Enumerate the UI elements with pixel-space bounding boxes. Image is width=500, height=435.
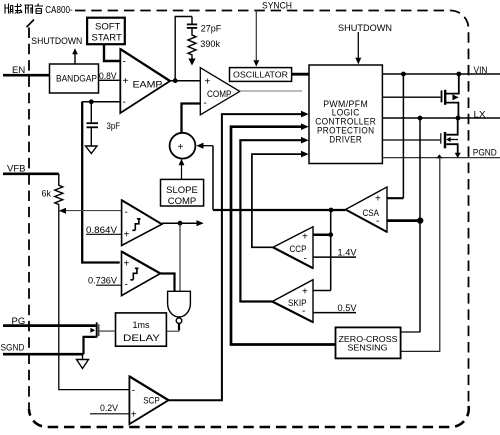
svg-text:+: + — [302, 232, 308, 243]
wire VIN rail — [382, 73, 500, 75]
capacitor 3pF — [87, 122, 99, 124]
wire bandgap shutdown arrow — [74, 52, 76, 64]
wire EN to bandgap — [3, 74, 50, 77]
node EAMP output — [173, 78, 178, 83]
soft start block — [87, 18, 125, 45]
wire CCP + — [313, 233, 331, 236]
svg-text:+: + — [178, 142, 184, 153]
svg-text:DELAY: DELAY — [123, 333, 161, 344]
wire CSA - from LX — [387, 219, 420, 222]
svg-text:CSA: CSA — [363, 208, 380, 218]
comparator CCP — [273, 227, 313, 268]
svg-text:-: - — [125, 280, 128, 291]
wire PGND rail — [382, 157, 500, 159]
svg-text:-: - — [125, 207, 128, 218]
transistor Q1 high-side MOSFET — [382, 96, 440, 98]
wire SKIP + — [313, 290, 331, 292]
wire CCP output to PWM — [252, 154, 302, 247]
ground (3pF) — [86, 146, 98, 154]
svg-text:COMP: COMP — [207, 89, 232, 100]
svg-text:0.736V: 0.736V — [88, 276, 117, 286]
svg-text:0.5V: 0.5V — [338, 303, 358, 314]
amplifier CSA — [346, 187, 388, 232]
wire COMP - input from summing node — [182, 104, 201, 133]
wire SYNCH to oscillator — [255, 10, 257, 61]
svg-text:LX: LX — [474, 110, 487, 121]
wire CSA output bus — [213, 209, 346, 211]
node PGND zero-cross arrow — [436, 154, 442, 158]
comparator SKIP — [272, 280, 313, 323]
svg-text:-: - — [132, 386, 135, 397]
comparator COMP — [200, 68, 240, 115]
svg-text:27pF: 27pF — [201, 24, 222, 34]
svg-text:+: + — [124, 230, 130, 241]
wire LX rail — [382, 117, 500, 119]
svg-text:SHUTDOWN: SHUTDOWN — [338, 23, 392, 34]
slope comp block — [161, 179, 204, 206]
wire thick triangle edges overlay — [120, 49, 387, 400]
wire zero-cross output to PWM — [231, 127, 336, 345]
wire EAMP- down to 0.736 comparator + — [82, 102, 120, 263]
arrow to output rail — [188, 59, 195, 66]
zero-cross sensing block — [336, 327, 401, 358]
svg-text:0.8V: 0.8V — [99, 71, 117, 81]
wire comp1 to NAND — [179, 223, 181, 291]
svg-text:+: + — [124, 259, 130, 270]
wire comp1 output — [162, 222, 198, 224]
svg-text:SGND: SGND — [1, 343, 25, 354]
svg-text:SOFT: SOFT — [95, 22, 121, 33]
svg-text:SYNCH: SYNCH — [262, 1, 292, 11]
hysteresis glyph — [130, 268, 138, 280]
transistor Q3 PG open drain — [96, 322, 98, 337]
hysteresis glyph — [132, 219, 140, 231]
wire oscillator to PWM block — [292, 73, 309, 76]
svg-text:CCP: CCP — [290, 244, 307, 254]
svg-text:-: - — [123, 97, 126, 108]
wire SKIP - ref 0.5V — [313, 312, 356, 314]
node VIN junctions — [401, 72, 406, 77]
svg-text:SLOPE: SLOPE — [166, 185, 198, 196]
wire SCP output to PWM — [169, 114, 302, 400]
watermark text 版权所有CA800- — [0, 0, 75, 17]
svg-text:1ms: 1ms — [132, 320, 150, 330]
resistor 390k — [188, 28, 196, 59]
svg-text:0.864V: 0.864V — [86, 225, 117, 235]
transistor Q2 low-side MOSFET — [382, 139, 440, 141]
wire CSA + from VIN — [387, 197, 403, 199]
comparator SCP — [129, 376, 168, 424]
wire delay to PG transistor gate — [99, 330, 115, 332]
bandgap block — [50, 64, 99, 93]
svg-text:BANDGAP: BANDGAP — [56, 74, 97, 84]
comparator PG lower (0.736V) — [122, 252, 161, 296]
wire EAMP inverting input — [82, 101, 120, 103]
wire slope comp to summing node — [181, 164, 183, 180]
gate NAND (pointing down) — [168, 291, 191, 317]
wire zero-cross from LX — [401, 331, 421, 333]
svg-text:PGND: PGND — [473, 147, 497, 157]
resistor 6k — [55, 174, 63, 205]
wire CCP - ref 1.4V — [313, 256, 356, 258]
svg-text:3pF: 3pF — [107, 121, 121, 132]
svg-text:VIN: VIN — [474, 65, 488, 76]
svg-text:COMP: COMP — [168, 196, 197, 207]
op-amp EAMP — [120, 49, 170, 113]
oscillator block — [230, 68, 292, 82]
svg-text:SKIP: SKIP — [288, 298, 307, 308]
wire CSA out into summing node — [203, 145, 214, 147]
svg-text:DRIVER: DRIVER — [329, 134, 362, 144]
wire zero-cross sense gray line — [401, 158, 440, 351]
wire SKIP output to PWM — [240, 140, 301, 301]
wire shutdown arrow into PWM block — [357, 32, 359, 59]
wire compensation feedback up — [175, 17, 192, 81]
PWM/PFM logic block — [309, 65, 382, 164]
wire COMP output (to PWM) — [240, 90, 302, 92]
wire NAND output to delay — [178, 324, 180, 331]
svg-text:OSCILLATOR: OSCILLATOR — [233, 70, 288, 79]
svg-text:SCP: SCP — [143, 396, 160, 406]
svg-text:+: + — [123, 76, 129, 87]
comparator PG upper (0.864V) — [122, 200, 162, 245]
svg-text:CA800-: CA800- — [45, 4, 73, 16]
svg-text:390k: 390k — [200, 39, 220, 49]
svg-text:-: - — [123, 57, 126, 68]
svg-text:EAMP: EAMP — [133, 80, 163, 91]
wire EAMP output to COMP + — [170, 80, 200, 82]
svg-text:0.2V: 0.2V — [100, 403, 119, 414]
svg-text:SENSING: SENSING — [348, 344, 388, 353]
wire comp2 output to NAND — [160, 274, 174, 292]
node EAMP- junction — [89, 99, 94, 104]
svg-text:+: + — [131, 410, 137, 421]
svg-text:1.4V: 1.4V — [338, 247, 358, 258]
svg-text:+: + — [302, 287, 308, 298]
svg-text:+: + — [375, 194, 381, 205]
wire VFB node down to SCP - — [59, 205, 130, 390]
svg-text:+: + — [205, 77, 211, 88]
svg-text:START: START — [92, 33, 122, 44]
ground (SGND) — [77, 360, 89, 369]
capacitor 27pF — [191, 17, 193, 25]
wire bandgap 0.8V to EAMP + — [99, 79, 120, 81]
summing node — [170, 133, 196, 159]
svg-text:6k: 6k — [42, 189, 52, 199]
wire 3pF to ground — [90, 127, 92, 146]
wire soft start to EAMP — [104, 44, 120, 61]
wire node to 3pF — [90, 102, 92, 123]
block 1ms delay — [116, 313, 167, 346]
wire feedback into VFB node (gray) — [65, 210, 122, 212]
svg-text:SHUTDOWN: SHUTDOWN — [31, 36, 82, 47]
